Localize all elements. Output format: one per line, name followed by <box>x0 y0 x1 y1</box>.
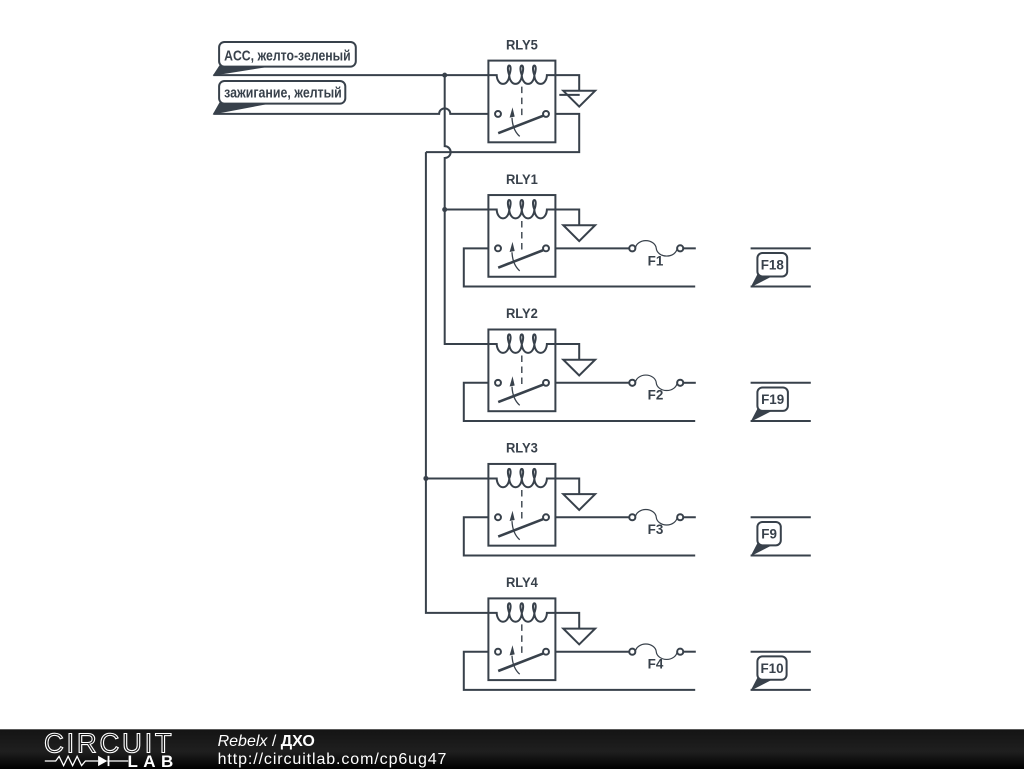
wire RLY1 coil to ground stem <box>555 210 579 226</box>
fuse F3 <box>629 510 683 525</box>
relay RLY1 <box>488 195 555 277</box>
wire right bottom stub <box>751 286 811 288</box>
net flag F19 <box>751 388 788 422</box>
wire RLY3 switch common return <box>464 517 695 555</box>
svg-text:зажигание, желтый: зажигание, желтый <box>224 85 342 101</box>
ground <box>563 360 595 376</box>
footer bar <box>0 729 1024 769</box>
wire RLY4 switch common return <box>464 652 695 690</box>
flag ACC, желто-зеленый <box>213 42 356 76</box>
svg-text:F10: F10 <box>760 661 783 676</box>
svg-text:RLY3: RLY3 <box>506 441 538 456</box>
wire ACC trunk vertical with hop, feeds RLY1 and RLY2 coils <box>445 75 489 344</box>
junction node RLY3 coil tap <box>423 476 428 481</box>
svg-text:F18: F18 <box>761 258 785 273</box>
wire RLY1 coil feed <box>445 209 489 211</box>
wire ACC net horizontal <box>213 74 488 76</box>
flag зажигание, желтый <box>213 81 346 115</box>
relay RLY4 <box>488 598 555 680</box>
fuse F4 <box>629 644 683 659</box>
wire fuse output stub <box>683 516 696 518</box>
fuse F1 <box>629 241 683 256</box>
net flag F10 <box>751 656 787 690</box>
junction node RLY1 coil tap <box>442 207 447 212</box>
ground <box>563 629 595 645</box>
svg-text:F19: F19 <box>761 392 784 407</box>
svg-text:F9: F9 <box>761 527 777 542</box>
net flag F9 <box>751 522 781 556</box>
junction node ACC tap <box>442 73 447 78</box>
wire right top stub <box>751 382 811 384</box>
fuse F2 <box>629 375 683 390</box>
wire RLY1 switch common return <box>464 248 695 286</box>
wire fuse output stub <box>683 651 696 653</box>
ground <box>563 225 595 241</box>
svg-text:RLY5: RLY5 <box>506 37 538 52</box>
wire right bottom stub <box>751 554 811 556</box>
wire RLY5 switch output to left trunk <box>426 114 579 152</box>
svg-text:F3: F3 <box>648 522 664 537</box>
wire fuse output stub <box>683 382 696 384</box>
wire RLY1 switch output to fuse <box>555 247 629 249</box>
svg-text:RLY2: RLY2 <box>506 306 538 321</box>
wire RLY4 switch output to fuse <box>555 651 629 653</box>
relay RLY3 <box>488 464 555 546</box>
CircuitLab logo <box>0 730 200 769</box>
svg-text:RLY4: RLY4 <box>506 575 538 590</box>
wire right top stub <box>751 247 811 249</box>
wire RLY2 switch common return <box>464 383 695 421</box>
wire left trunk vertical from RLY5 output, feeds RLY3 and RLY4 coils <box>426 152 489 613</box>
wire right bottom stub <box>751 689 811 691</box>
svg-text:F1: F1 <box>648 253 664 268</box>
svg-text:F4: F4 <box>648 657 664 672</box>
ground <box>559 91 595 107</box>
ground <box>563 494 595 510</box>
svg-text:F2: F2 <box>648 388 664 403</box>
wire right bottom stub <box>751 420 811 422</box>
relay RLY2 <box>488 330 555 412</box>
wire RLY2 switch output to fuse <box>555 382 629 384</box>
wire fuse output stub <box>683 247 696 249</box>
svg-text:LAB: LAB <box>128 752 179 769</box>
wire RLY5 coil to ground stem <box>555 75 579 91</box>
wire RLY3 coil to ground stem <box>555 478 579 494</box>
wire RLY3 coil feed <box>426 477 489 479</box>
wire right top stub <box>751 651 811 653</box>
relay RLY5 <box>488 61 555 143</box>
wire right top stub <box>751 516 811 518</box>
svg-text:ACC, желто-зеленый: ACC, желто-зеленый <box>224 48 351 64</box>
wire RLY2 coil to ground stem <box>555 344 579 360</box>
svg-text:RLY1: RLY1 <box>506 172 538 187</box>
wire RLY4 coil to ground stem <box>555 613 579 629</box>
net flag F18 <box>751 253 788 287</box>
wire ignition net horizontal with hop over ACC trunk <box>213 108 488 114</box>
wire RLY3 switch output to fuse <box>555 516 629 518</box>
